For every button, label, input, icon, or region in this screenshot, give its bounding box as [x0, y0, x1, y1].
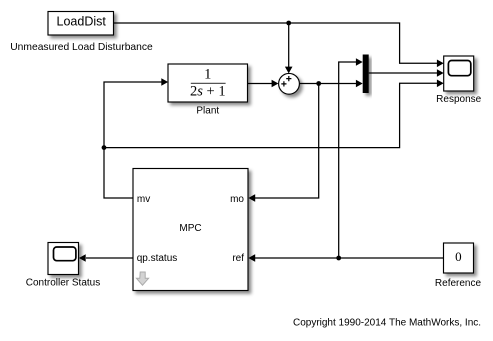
wire branch to Mux input 1 — [339, 58, 363, 258]
svg-text:Reference: Reference — [435, 278, 482, 289]
svg-text:1: 1 — [204, 67, 211, 83]
junction on LoadDist net — [286, 21, 291, 26]
MPC gray down-arrow icon — [136, 272, 148, 285]
constant block Reference — [444, 243, 474, 273]
svg-text:Plant: Plant — [196, 106, 219, 117]
wire MPC mv output to Plant input — [104, 78, 168, 198]
svg-text:Controller Status: Controller Status — [26, 277, 100, 288]
wire mv branch to Response input 3 — [104, 80, 444, 148]
svg-text:qp.status: qp.status — [137, 253, 178, 264]
svg-text:MPC: MPC — [179, 223, 201, 234]
junction on mv net — [102, 145, 107, 150]
svg-text:Copyright 1990-2014 The MathWo: Copyright 1990-2014 The MathWorks, Inc. — [293, 318, 481, 329]
wire Sum output to Mux input 2 — [299, 80, 363, 88]
svg-text:0: 0 — [455, 249, 462, 264]
wire Reference output to MPC ref input — [248, 254, 443, 262]
scope Response — [444, 56, 474, 91]
svg-text:ref: ref — [232, 253, 244, 264]
wire LoadDist output to Response input 1 — [114, 23, 444, 67]
scope Controller Status — [48, 243, 79, 275]
wire Mux output to Response input 2 — [369, 69, 444, 77]
wire branch to MPC mo input — [248, 84, 318, 202]
svg-text:Response: Response — [436, 94, 481, 105]
block LoadDist — [48, 12, 114, 36]
junction on reference net — [336, 256, 341, 261]
svg-text:mv: mv — [137, 194, 150, 205]
wire Plant output to Sum left input — [248, 80, 279, 88]
wire MPC qp.status output to Controller Status scope — [79, 254, 133, 262]
svg-text:Unmeasured Load Disturbance: Unmeasured Load Disturbance — [10, 42, 153, 53]
mux block — [363, 55, 369, 94]
sum block — [279, 73, 300, 94]
controller block MPC — [133, 169, 248, 291]
wire branch to Sum top input — [285, 23, 293, 73]
junction on measured-output net — [316, 81, 321, 86]
svg-text:LoadDist: LoadDist — [57, 15, 107, 29]
svg-text:2s + 1: 2s + 1 — [190, 84, 226, 100]
transfer function block Plant — [168, 64, 248, 102]
value label 1/(2s+1) — [190, 67, 226, 100]
svg-text:mo: mo — [230, 194, 244, 205]
